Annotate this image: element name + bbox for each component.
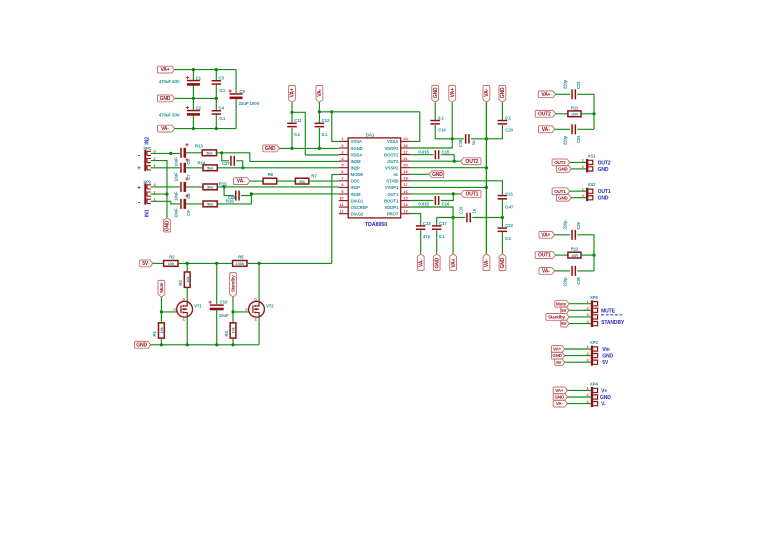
connector XS2 — [586, 188, 588, 201]
svg-text:10uF: 10uF — [174, 191, 179, 201]
svg-text:10R: 10R — [571, 112, 578, 117]
resistor R15 5k6 — [203, 184, 217, 190]
svg-text:MODE: MODE — [351, 172, 364, 177]
label VA- (osc divider) — [234, 178, 250, 185]
svg-text:OUT2: OUT2 — [387, 159, 399, 164]
label GND vertical bottom (C22) — [499, 254, 506, 271]
svg-text:220p: 220p — [562, 277, 567, 287]
label GND below XP2 — [164, 218, 171, 232]
svg-text:Standby: Standby — [231, 275, 236, 292]
svg-text:VA+: VA+ — [451, 258, 457, 267]
label VA- vertical bottom (rail) — [483, 254, 490, 271]
wire VA+ to C23 — [556, 93, 571, 95]
svg-text:SGND: SGND — [351, 146, 363, 151]
wire C1 branch — [192, 70, 194, 80]
connector XP4 — [591, 387, 593, 407]
wire pin1 drop — [332, 112, 339, 142]
svg-text:VA-: VA- — [317, 89, 323, 97]
svg-text:R16: R16 — [226, 198, 234, 203]
svg-text:10uF: 10uF — [174, 172, 179, 182]
svg-text:C25: C25 — [576, 221, 581, 229]
svg-text:Mute: Mute — [159, 282, 164, 293]
svg-text:VSSP1: VSSP1 — [385, 185, 399, 190]
label GND (SGND line) — [263, 145, 280, 152]
svg-text:VSSA: VSSA — [351, 139, 362, 144]
svg-text:VA+: VA+ — [541, 92, 550, 98]
wire XS2 pins — [570, 190, 586, 192]
wire XP2 pin2 join — [151, 193, 167, 195]
wire C26 to junction D — [577, 270, 594, 272]
transistor VT2 — [249, 301, 265, 317]
svg-text:0.47: 0.47 — [505, 205, 514, 210]
resistor R12 10R — [568, 252, 581, 258]
label OUT2 (XS1) — [552, 159, 570, 166]
svg-text:VA+: VA+ — [541, 232, 550, 238]
svg-text:C5: C5 — [239, 89, 245, 94]
svg-text:5k6: 5k6 — [206, 151, 213, 156]
svg-text:XP2: XP2 — [143, 179, 152, 184]
capacitor C18 1u — [465, 134, 467, 144]
svg-text:C13: C13 — [423, 221, 431, 226]
svg-text:VA+: VA+ — [553, 347, 562, 352]
wire R5 to MODE line — [247, 262, 332, 264]
capacitor C13 47p — [416, 225, 426, 227]
svg-text:XP1: XP1 — [143, 146, 152, 151]
svg-text:XS2: XS2 — [588, 182, 597, 187]
label VA+ vertical (pin23) — [449, 85, 456, 102]
svg-text:R1: R1 — [152, 330, 157, 336]
svg-text:OUT2: OUT2 — [538, 111, 551, 117]
wire VT1 source to gnd — [186, 317, 188, 345]
svg-text:TDA8950: TDA8950 — [365, 222, 387, 228]
wire R14 to IN2P pin5 — [217, 167, 338, 169]
svg-text:GND: GND — [598, 167, 609, 173]
svg-text:STABI: STABI — [386, 179, 398, 184]
wire R3 to VT1 drain — [186, 287, 188, 302]
label VA+ (group D) — [539, 231, 555, 238]
svg-text:10k: 10k — [231, 326, 236, 333]
svg-text:IN2: IN2 — [145, 137, 151, 145]
svg-text:C2: C2 — [196, 105, 202, 110]
capacitor C3 0.1 — [212, 80, 222, 82]
capacitor C4 0.1 — [212, 110, 222, 112]
op-amp U1 / IC DA1 TDA8950 body — [348, 138, 401, 218]
svg-text:VA-: VA- — [542, 127, 550, 133]
wire VT2 source to gnd — [258, 317, 260, 345]
capacitor C8 10uF — [180, 182, 182, 192]
svg-text:C9: C9 — [186, 210, 191, 216]
svg-text:OUT2: OUT2 — [598, 160, 611, 166]
svg-text:VDDP2: VDDP2 — [384, 146, 399, 151]
label VA+ (group A) — [538, 91, 555, 98]
wire VA+ top rail — [175, 69, 237, 71]
svg-text:C21: C21 — [505, 191, 513, 196]
connector XP3 — [591, 346, 593, 366]
svg-text:20: 20 — [403, 163, 407, 168]
wire C28 to IN1M line — [241, 195, 251, 197]
svg-text:PROT: PROT — [387, 212, 399, 217]
wire VA+ to C25 — [555, 234, 571, 236]
wire C25 to junction column D — [577, 235, 594, 271]
wire XP2 pin1 to C9 — [151, 201, 180, 204]
wire 5V rail — [178, 262, 233, 264]
svg-text:10k: 10k — [168, 261, 175, 266]
wire XP3 pins — [565, 348, 591, 350]
svg-text:0.1: 0.1 — [294, 132, 300, 137]
svg-text:470uF 63V: 470uF 63V — [159, 79, 180, 84]
svg-text:VA+: VA+ — [160, 67, 169, 73]
wire VA- rail over IC to pins 1 and 24 — [318, 102, 320, 123]
label GND (XP4) — [553, 394, 567, 401]
capacitor C15 0.015 — [435, 150, 437, 159]
resistor R7 30k — [295, 178, 308, 184]
svg-text:IN1: IN1 — [145, 209, 151, 217]
svg-text:C20: C20 — [505, 127, 513, 132]
svg-text:0.1: 0.1 — [219, 88, 225, 93]
wire R6 to R7 — [277, 180, 296, 182]
svg-text:S: S — [254, 318, 256, 322]
label OUT2 at pin21 — [461, 158, 481, 165]
capacitor C1 470uF 63V — [187, 80, 200, 82]
svg-text:GND: GND — [500, 87, 506, 98]
wire VA+ vertical to pin23 — [410, 102, 452, 148]
svg-text:GND: GND — [265, 146, 276, 152]
svg-text:C27: C27 — [222, 161, 230, 166]
wire VA+ node to C18 — [452, 138, 464, 140]
label 5V (XP3) — [555, 359, 565, 366]
capacitor C5 22uF 100V — [230, 93, 243, 95]
svg-text:+: + — [137, 186, 141, 192]
svg-text:GND: GND — [500, 257, 506, 268]
svg-text:R13: R13 — [195, 144, 203, 149]
svg-text:C3: C3 — [218, 75, 224, 80]
wire C24 to junction — [577, 128, 594, 130]
wire VT2 drain — [258, 263, 260, 302]
capacitor C26 220p — [571, 266, 573, 276]
resistor R13 5k6 — [202, 150, 216, 156]
label 5V (XP5 pin2) — [561, 307, 569, 314]
label Standby (XP5) — [546, 314, 569, 321]
capacitor C27 — [230, 156, 232, 166]
wire GND to C20 — [501, 102, 503, 120]
svg-text:R2: R2 — [169, 254, 175, 259]
svg-text:C10: C10 — [220, 300, 228, 305]
wire C19 to C21/C22 node — [472, 217, 502, 219]
svg-text:VA-: VA- — [418, 259, 424, 267]
svg-text:GND: GND — [434, 257, 440, 268]
wire C18 to VA- rail — [471, 138, 487, 140]
svg-text:OSC: OSC — [351, 179, 360, 184]
svg-text:VDDP1: VDDP1 — [384, 205, 399, 210]
svg-text:7: 7 — [341, 176, 343, 181]
svg-text:0.1: 0.1 — [438, 116, 444, 121]
resistor R3 10k — [184, 272, 190, 287]
label GND (XS1) — [557, 166, 572, 173]
svg-text:22uF 100V: 22uF 100V — [239, 101, 260, 106]
capacitor C28 — [235, 191, 237, 201]
svg-text:GND: GND — [433, 87, 439, 98]
svg-text:220p: 220p — [562, 135, 567, 145]
svg-text:C14: C14 — [438, 127, 446, 132]
svg-text:R7: R7 — [311, 174, 317, 179]
connector XP1 — [144, 150, 146, 171]
label Standby vertical — [230, 273, 237, 297]
svg-text:GND: GND — [600, 395, 611, 401]
svg-text:OUT2: OUT2 — [466, 159, 479, 165]
svg-text:S: S — [183, 318, 185, 322]
label VA- vertical (main rail) — [483, 85, 490, 102]
svg-text:R11: R11 — [571, 105, 579, 110]
wire OUT1 to R12 — [556, 254, 568, 256]
svg-text:C11: C11 — [294, 118, 302, 123]
junction dots power rails — [192, 68, 195, 71]
svg-text:OUT1: OUT1 — [554, 189, 566, 194]
wire VDDP1 pin14 down to VA+ — [410, 207, 453, 254]
label GND vertical bottom (C17) — [433, 254, 440, 271]
svg-text:10uF: 10uF — [174, 157, 179, 167]
IC pins right side with numbers and names — [401, 140, 411, 142]
svg-text:R15: R15 — [219, 181, 227, 186]
label 5V (XP5 pin4) — [561, 320, 569, 327]
wire XS1 pins — [570, 161, 586, 163]
wire XP1 pin1 to C7 — [151, 167, 180, 169]
svg-text:30k: 30k — [299, 179, 306, 184]
svg-text:VSSA: VSSA — [387, 139, 398, 144]
label OUT1 (group D) — [535, 252, 555, 259]
wire OUT1 pin16 to label — [410, 193, 460, 195]
resistor R6 — [263, 178, 277, 184]
svg-text:5V: 5V — [556, 360, 561, 365]
svg-text:Vin: Vin — [602, 347, 609, 353]
wire gate VT2 — [233, 311, 250, 313]
svg-text:V-: V- — [601, 402, 606, 408]
wire STABI pin18 to C21 — [410, 181, 502, 195]
capacitor C11 0.1 — [287, 123, 297, 125]
wire R4 to gnd rail — [232, 338, 234, 345]
wire C6 to R13 — [185, 152, 202, 154]
label VA+ (XP3) — [552, 346, 565, 353]
wire BOOT2 pin22 to C15 — [410, 154, 433, 156]
wire C27 to IN2P line — [236, 161, 243, 168]
svg-text:47p: 47p — [423, 234, 431, 239]
connector XS1 — [586, 159, 588, 172]
svg-text:OSCREF: OSCREF — [351, 205, 369, 210]
wire C8 to R15 — [185, 186, 203, 188]
label OUT1 at pin16 — [461, 191, 481, 198]
svg-text:C26: C26 — [576, 276, 581, 284]
label GND (XP3) — [552, 352, 565, 359]
wire C7 to R14 — [185, 167, 203, 169]
svg-text:XP5: XP5 — [590, 295, 599, 300]
svg-text:C23: C23 — [576, 81, 581, 89]
svg-text:XS1: XS1 — [588, 153, 597, 158]
svg-text:10R: 10R — [571, 253, 578, 258]
capacitor C22 0.1 — [498, 227, 508, 229]
svg-text:GND: GND — [555, 395, 565, 400]
svg-text:10uF: 10uF — [219, 313, 229, 318]
svg-text:GND: GND — [160, 96, 171, 102]
svg-text:C17: C17 — [439, 221, 447, 226]
wire OUT2 pin21 to label — [410, 160, 460, 162]
wire GND to C14 to VA+ node — [434, 102, 436, 120]
svg-text:OUT1: OUT1 — [466, 192, 479, 198]
capacitor C17 0.1 — [432, 225, 442, 227]
capacitor C19 1u — [466, 213, 468, 223]
svg-text:10k: 10k — [185, 276, 190, 283]
svg-text:VA-: VA- — [542, 269, 550, 275]
svg-text:10k: 10k — [159, 326, 164, 333]
wire C21 to node — [501, 200, 503, 218]
label VA- (group A) — [539, 126, 555, 133]
wire VA- to C26 — [555, 270, 571, 272]
svg-text:220p: 220p — [562, 79, 567, 89]
capacitor C7 10uF — [180, 163, 182, 173]
capacitor C24 220p — [571, 124, 573, 134]
capacitor C6 10uF — [180, 148, 182, 158]
label VA+ vertical (C11) — [289, 86, 296, 103]
capacitor C12 0.1 — [315, 123, 325, 125]
svg-text:XP3: XP3 — [590, 340, 599, 345]
label Mute (XP5) — [555, 300, 569, 307]
wire C23 to junction column — [577, 94, 594, 129]
svg-text:OUT1: OUT1 — [538, 253, 551, 259]
capacitor C14 0.1 — [430, 120, 440, 122]
svg-text:VA+: VA+ — [290, 88, 296, 97]
wire R11 to junction — [581, 113, 594, 115]
resistor R11 10R — [568, 111, 581, 117]
svg-text:VA-: VA- — [161, 126, 169, 132]
svg-text:C18: C18 — [458, 139, 463, 147]
wire R13 to IN2M pin4 — [217, 153, 339, 162]
svg-text:DIAG2: DIAG2 — [351, 212, 364, 217]
svg-text:Mute: Mute — [556, 301, 567, 306]
wire C16 to OUT1 line — [441, 194, 454, 201]
svg-text:220p: 220p — [562, 220, 567, 230]
wire VA- bottom rail — [175, 128, 237, 130]
label VA- vertical (C12) — [316, 86, 323, 103]
svg-text:10uF: 10uF — [174, 208, 179, 218]
connector XP5 — [591, 300, 593, 327]
wire R15 node to C28 — [224, 187, 234, 196]
resistor R4 10k — [230, 323, 236, 338]
svg-text:0.1: 0.1 — [322, 132, 328, 137]
svg-text:GND: GND — [136, 342, 147, 348]
svg-text:VA-: VA- — [556, 401, 564, 406]
label GND (XS2) — [557, 194, 572, 201]
svg-text:VA+: VA+ — [450, 88, 456, 97]
svg-text:VA-: VA- — [484, 259, 490, 267]
wire C9 to R16 — [185, 203, 203, 205]
wire XP4 pins — [567, 389, 590, 391]
capacitor C16 0.015 — [435, 196, 437, 205]
label GND vertical (C20) — [499, 85, 506, 102]
label VA+ (XP4) — [553, 387, 567, 394]
wire gnd rail bottom — [151, 344, 260, 346]
svg-text:R12: R12 — [571, 247, 579, 252]
wire C5 branch — [235, 70, 237, 93]
connector XP2 — [144, 184, 146, 205]
svg-text:OUT1: OUT1 — [387, 192, 399, 197]
svg-text:XP4: XP4 — [590, 382, 599, 387]
svg-text:VT1: VT1 — [194, 304, 202, 309]
label GND (top-left) — [158, 95, 175, 102]
wire R12 to junction D — [581, 254, 594, 256]
svg-text:5V: 5V — [142, 261, 149, 267]
transistor VT1 — [177, 301, 193, 317]
resistor R5 100k — [233, 261, 247, 267]
svg-text:R6: R6 — [268, 172, 274, 177]
svg-text:DA1: DA1 — [366, 133, 375, 138]
svg-text:C12: C12 — [322, 118, 330, 123]
svg-text:R5: R5 — [238, 254, 244, 259]
svg-text:BOOT1: BOOT1 — [384, 198, 399, 203]
wire R13 node to C27 — [222, 153, 229, 161]
wire C4 branch — [215, 98, 217, 110]
svg-text:5k6: 5k6 — [207, 166, 214, 171]
IC pins left side with numbers and names — [339, 140, 348, 142]
svg-text:10: 10 — [339, 195, 343, 200]
svg-text:GND: GND — [552, 353, 562, 358]
svg-text:0.015: 0.015 — [418, 201, 429, 206]
wire XP2 pin3 to C8 — [151, 186, 180, 188]
svg-text:VT2: VT2 — [266, 304, 274, 309]
svg-text:17: 17 — [403, 182, 407, 187]
resistor R14 5k6 — [203, 165, 217, 171]
capacitor C10 10uF — [216, 263, 218, 304]
svg-text:V+: V+ — [601, 388, 607, 394]
svg-text:5V: 5V — [561, 308, 566, 313]
svg-text:C16: C16 — [442, 201, 450, 206]
capacitor C21 0.47 — [498, 195, 508, 197]
resistor R2 10k — [164, 261, 178, 267]
svg-text:+: + — [137, 166, 141, 172]
wire C3 branch — [215, 70, 217, 81]
capacitor C20 0.1 — [498, 120, 508, 122]
wire VA- to C24 — [555, 128, 570, 130]
svg-text:GND: GND — [558, 195, 568, 200]
wire gate VT1 — [161, 311, 178, 313]
wire XP5 pins — [569, 303, 591, 305]
svg-text:5V: 5V — [602, 360, 609, 366]
svg-text:DIAG1: DIAG1 — [351, 198, 364, 203]
label GND at pin19 — [429, 171, 444, 178]
svg-text:VDDA: VDDA — [351, 152, 363, 157]
wire VA- long vertical rail — [485, 102, 487, 254]
svg-text:470uF 63V: 470uF 63V — [159, 112, 180, 117]
svg-text:C15: C15 — [442, 150, 450, 155]
wire MODE pin6 down to 5V circuit — [332, 175, 339, 264]
svg-text:nc: nc — [393, 172, 399, 177]
capacitor C2 470uF 63V — [187, 110, 200, 112]
svg-text:R3: R3 — [178, 280, 183, 286]
svg-text:VA+: VA+ — [555, 388, 564, 393]
svg-text:5k6: 5k6 — [207, 202, 214, 207]
wire R15 to IN1P pin8 — [217, 186, 338, 188]
svg-text:MUTE: MUTE — [601, 309, 616, 315]
svg-text:0.1: 0.1 — [219, 116, 225, 121]
wire SGND line to pin2 — [279, 147, 338, 149]
wire VA+ to C11 and pin3 jog — [291, 102, 293, 123]
label VA- vertical bottom (C13) — [417, 254, 424, 271]
svg-text:OUT2: OUT2 — [554, 160, 566, 165]
wire Standby to gate and R4 — [232, 297, 234, 323]
svg-text:IN2P: IN2P — [351, 166, 360, 171]
label VA+ vertical bottom (pin14) — [450, 254, 457, 271]
label VA- (XP4) — [553, 400, 567, 407]
svg-text:IN1M: IN1M — [351, 192, 361, 197]
label Mute vertical — [158, 280, 165, 297]
resistor R1 10k — [159, 323, 165, 338]
